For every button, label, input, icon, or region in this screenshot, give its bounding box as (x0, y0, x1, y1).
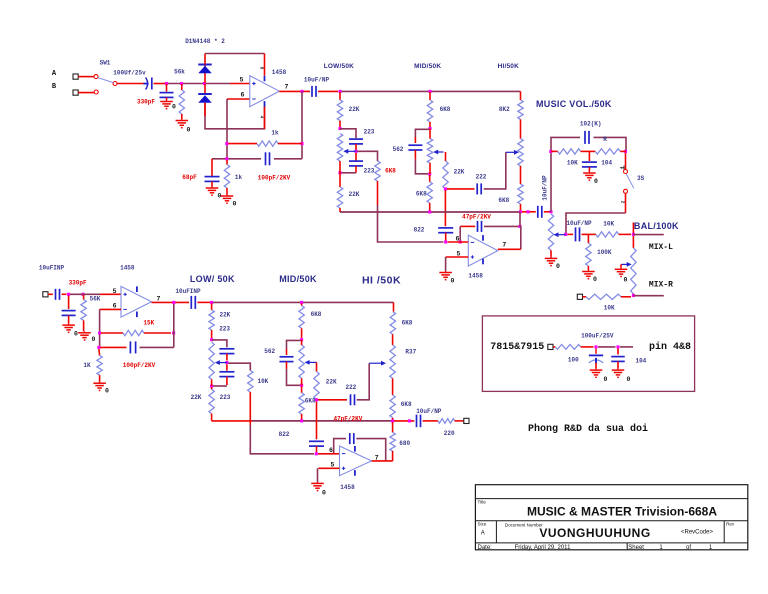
svg-text:10uF/NP: 10uF/NP (416, 408, 442, 415)
connector MIX-R input square (577, 294, 582, 299)
resistor 6K8 HI bottom lower (390, 395, 395, 418)
wire 104 tap (588, 151, 590, 161)
title block of (686, 545, 691, 551)
ground 0 label (556, 263, 560, 270)
wire wiper to 223 lower (355, 153, 357, 161)
resistor 6K8 feedback LOW (375, 161, 380, 181)
wire MV top loop right (594, 137, 627, 150)
capacitor 10uFINP label mid (175, 288, 201, 295)
svg-text:0: 0 (451, 278, 455, 285)
resistor 10K coupling lower (248, 371, 253, 393)
capacitor 10uFINP lower out (191, 296, 195, 309)
wire 22K stub lower (211, 304, 213, 310)
wire top loop right (264, 54, 266, 76)
potentiometer MID lower wiper (305, 360, 317, 365)
junction 56k node (180, 82, 183, 85)
wire 822 bottom lower (316, 446, 318, 452)
wire diode top stub (204, 66, 206, 84)
wire output feedback vert lower (173, 303, 175, 347)
svg-text:22K: 22K (349, 106, 360, 113)
net MIX-R (649, 281, 673, 290)
svg-text:MID/50K: MID/50K (414, 63, 441, 70)
svg-text:22K: 22K (219, 312, 230, 319)
resistor 100 label (568, 357, 579, 364)
ground 330pF (160, 100, 173, 109)
wire switch to corner (625, 193, 627, 213)
svg-text:56K: 56K (90, 296, 101, 303)
input connector A (73, 74, 78, 79)
potentiometer HI 50K body (518, 139, 523, 166)
junction bus cap lower (408, 419, 411, 422)
wire pin6 vertical lower (99, 309, 101, 347)
capacitor 104 label (601, 159, 612, 166)
wire 6K8 to bus lower (301, 414, 303, 421)
capacitor 100pF/2KV (266, 152, 270, 165)
potentiometer MV wiper arrow (554, 232, 566, 237)
svg-text:MIX-R: MIX-R (649, 281, 673, 290)
ground op4 pin5 (311, 482, 324, 491)
wire 223 lower to pot bottom (340, 172, 356, 174)
wire 562 stub lower (286, 349, 288, 355)
wire MIX-R line (633, 295, 663, 297)
wire square to 10K (583, 296, 587, 298)
svg-text:100uF/25V: 100uF/25V (581, 333, 614, 340)
junction diode node (203, 82, 206, 85)
capacitor 100pF/2KV lower value (123, 362, 156, 369)
resistor 1k feedback (257, 141, 278, 146)
connector output square lower (464, 418, 469, 423)
junction LOW node2 lower (210, 338, 213, 341)
capacitor 10uF/NP bus (538, 206, 542, 218)
junction 15K right (172, 331, 175, 334)
svg-text:10uFINP: 10uFINP (175, 288, 201, 295)
wire node to node2 (598, 346, 616, 348)
wire 6K8 to pot lower (392, 334, 394, 345)
header MID/50K (414, 63, 441, 70)
wire 22K stub (339, 92, 341, 100)
svg-text:68pF: 68pF (182, 174, 197, 181)
resistor 6K8 HI top lower label (402, 319, 413, 326)
svg-text:Friday, April 29, 2011: Friday, April 29, 2011 (515, 545, 571, 551)
svg-text:220: 220 (444, 430, 455, 437)
junction bus HI lower (391, 419, 394, 422)
potentiometer LOW lower body (209, 342, 214, 379)
svg-text:5: 5 (240, 77, 244, 84)
title block size A (481, 531, 485, 537)
wire 100K stub (587, 234, 589, 243)
power supply box (482, 316, 694, 392)
wire L to 223 upper lower (212, 340, 227, 347)
wire SW1 common to C input (117, 83, 145, 85)
svg-text:0: 0 (233, 201, 237, 208)
svg-text:15K: 15K (143, 320, 154, 327)
svg-text:562: 562 (264, 348, 275, 355)
resistor 1K label (83, 362, 91, 369)
ground MV pot (545, 257, 558, 266)
svg-text:6K8: 6K8 (385, 167, 396, 174)
svg-text:47pF/2KV: 47pF/2KV (462, 213, 491, 220)
capacitor 10uFINP lower input (56, 289, 60, 300)
svg-text:680: 680 (399, 440, 410, 447)
switch SW1 throw A contact (94, 75, 98, 79)
wire top rail (340, 90, 521, 92)
text 7815&7915 (490, 342, 544, 353)
wire row1 left stub (227, 143, 257, 145)
wire upper bus red (521, 211, 536, 213)
junction LOW node3 (338, 171, 341, 174)
node A input label (52, 70, 57, 78)
wire 223 to wiper lower (226, 354, 228, 361)
wire 1K stub lower (98, 349, 101, 355)
resistor 10K MV (558, 149, 581, 154)
wire HI corner (520, 91, 522, 100)
resistor 680 (390, 432, 395, 451)
svg-text:6K8: 6K8 (498, 197, 509, 204)
capacitor 222 (477, 183, 481, 194)
junction BAL top node (632, 233, 635, 236)
svg-text:223: 223 (364, 128, 375, 135)
svg-text:822: 822 (279, 431, 290, 438)
wire L to 562 lower (287, 340, 301, 349)
wire 10K to BAL node (619, 233, 631, 235)
svg-text:6: 6 (329, 447, 333, 454)
svg-text:22K: 22K (191, 394, 202, 401)
svg-text:6K8: 6K8 (416, 190, 427, 197)
svg-text:330pF: 330pF (137, 98, 155, 105)
svg-text:100Uf/25v: 100Uf/25v (113, 70, 146, 77)
op-amp U1A 1458 (250, 76, 279, 107)
resistor 10K coupling label (257, 378, 268, 385)
title block Rev label (726, 522, 735, 527)
wire upper bus (340, 211, 521, 213)
wire 47pF left red (460, 225, 475, 227)
resistor 6K8 MID bottom label (416, 190, 427, 197)
header HI/50K (498, 63, 520, 70)
wire lower bus mid (252, 420, 393, 422)
ground 0 label (92, 336, 96, 343)
svg-text:8K2: 8K2 (499, 106, 510, 113)
wire top loop left (204, 54, 206, 65)
svg-text:1458: 1458 (120, 264, 135, 271)
svg-text:pin 4&8: pin 4&8 (649, 341, 691, 353)
svg-text:10K: 10K (604, 305, 615, 312)
wire row2 horizontal right (274, 158, 302, 160)
junction feedback row1 left (225, 142, 228, 145)
wire 56k stub (181, 84, 183, 90)
wire cap to node (62, 293, 67, 295)
svg-text:1K: 1K (83, 362, 91, 369)
wire 223 lower to bottom (355, 166, 357, 173)
wire 562 down red (414, 150, 416, 159)
capacitor 47pF/2KV lower value (333, 416, 362, 423)
pin 5 number lower (113, 288, 117, 295)
wire pot bottom stub (339, 161, 341, 173)
svg-text:0: 0 (322, 489, 326, 496)
wire node to pin5 dark (206, 83, 230, 85)
junction MV left (549, 150, 552, 153)
input connector B (73, 90, 78, 95)
wire 223 to pot bottom lower (212, 385, 227, 387)
capacitor 102(K) (585, 131, 589, 144)
junction output lower (172, 301, 175, 304)
junction bus aux (526, 210, 529, 213)
svg-text:100K: 100K (597, 249, 612, 256)
net MIX-L (649, 243, 673, 252)
wire 104 stub (617, 349, 619, 355)
pin 5 number op2 (457, 251, 461, 258)
diode D2 (lower) (198, 94, 212, 103)
svg-text:10uF/NP: 10uF/NP (542, 175, 549, 201)
wire 100 to node (581, 346, 594, 348)
svg-text:Sheet: Sheet (628, 545, 644, 551)
op-amp U1B 1458 (468, 235, 498, 266)
capacitor 330pF lower (62, 311, 76, 316)
svg-text:Date:: Date: (478, 545, 493, 551)
resistor 220 (438, 419, 455, 424)
wire 56K to gnd (83, 320, 85, 331)
wire cap to 220 (423, 420, 438, 422)
svg-text:Rev: Rev (726, 522, 735, 527)
wire MID 6K8 stub lower (301, 304, 303, 306)
title block Date label (478, 545, 493, 551)
wire 10K down to pin6 row (250, 425, 314, 454)
junction MID node2 lower (300, 338, 303, 341)
wire lower rail (213, 301, 394, 303)
wire input B (78, 92, 94, 94)
svg-text:562: 562 (393, 146, 404, 153)
wire BAL node stub up (632, 223, 634, 235)
wire 22K to bus lower (211, 414, 213, 421)
svg-text:6K8: 6K8 (311, 311, 322, 318)
potentiometer R37 label (405, 349, 416, 356)
svg-text:223: 223 (219, 326, 230, 333)
svg-text:1458: 1458 (340, 484, 355, 491)
ground 1k (221, 195, 234, 204)
svg-text:HI/50K: HI/50K (498, 63, 520, 70)
pin 6 number lower (113, 303, 117, 310)
wire 68pF drop (211, 159, 213, 176)
wire 1k to gnd (226, 188, 228, 195)
resistor 220 label (444, 430, 455, 437)
ground op2 pin5 (439, 271, 452, 280)
ground 0 label (187, 127, 191, 134)
junction MV wiper node (564, 233, 567, 236)
ground 0 label (74, 331, 78, 338)
wire 22K to node (339, 121, 341, 129)
wire BAL pot stub (632, 236, 634, 248)
wire pin6 row lower2 (318, 453, 340, 455)
resistor 6K8 MID bottom (427, 182, 432, 203)
potentiometer LOW lower wiper (215, 360, 227, 365)
wire MIX-L line (633, 234, 663, 236)
ground 0 label (604, 376, 608, 383)
wire 330pF drop (68, 296, 70, 310)
capacitor 222 value (476, 173, 487, 180)
wire MID pot stub2 lower (301, 378, 303, 385)
capacitor 562 (408, 145, 422, 150)
pin 7 number (285, 84, 289, 91)
wire HI corner lower (393, 302, 395, 311)
svg-text:MUSIC & MASTER Trivision-668A: MUSIC & MASTER Trivision-668A (527, 505, 717, 519)
potentiometer MUSIC VOL body (548, 214, 553, 250)
wire row2 horizontal left (212, 158, 261, 160)
wire row2 right (140, 346, 174, 348)
svg-text:223: 223 (220, 394, 231, 401)
capacitor 10uFINP label lower-in (39, 264, 65, 271)
wire switch return (566, 213, 626, 234)
op-amp U2B 1458 lower (340, 446, 372, 476)
text pin 4&8 (649, 341, 691, 353)
ground 0 label (593, 276, 597, 283)
pin 7 number lower (157, 296, 161, 303)
wire cap to 10K (582, 233, 596, 235)
wire 10K to BAL bottom (621, 296, 631, 298)
resistor 8K2 label (499, 106, 510, 113)
capacitor 47pF/2KV value (462, 213, 491, 220)
wire cap to node 330pF (154, 83, 166, 85)
resistor 22K MID lower (314, 372, 319, 400)
junction 22K/222 lower (315, 398, 318, 401)
switch SW1 label (100, 60, 111, 67)
wire square to 100 (553, 346, 555, 348)
svg-text:222: 222 (345, 384, 356, 391)
svg-text:22K: 22K (349, 191, 360, 198)
wire output up (520, 226, 522, 249)
op-amp pin4 rotated (259, 116, 265, 119)
svg-text:7815&7915: 7815&7915 (490, 342, 544, 353)
wire 47pF row (484, 225, 520, 227)
svg-text:104: 104 (635, 358, 646, 365)
junction feedback row1 right (300, 142, 303, 145)
junction LOW top lower (210, 301, 213, 304)
switch 3S contact 2 (624, 189, 628, 193)
ground 0 label (172, 104, 176, 111)
svg-text:R: R (603, 136, 607, 143)
ground 0 label (105, 388, 109, 395)
svg-text:5: 5 (113, 288, 117, 295)
resistor 15K (123, 330, 144, 335)
wire BAL pot bottom (632, 294, 634, 296)
junction MID node3 lower (300, 384, 303, 387)
wire R row mid (581, 150, 596, 152)
resistor 1k to ground (224, 165, 229, 189)
ground 0 label (451, 278, 455, 285)
junction 47pF right (518, 225, 521, 228)
pin 5 number (240, 77, 244, 84)
ground BAL wiper (615, 268, 628, 277)
switch 3S label (637, 175, 645, 182)
capacitor 223 bottom lower label (220, 394, 231, 401)
wire MID 6K8 bottom stub (301, 386, 303, 393)
capacitor 822 value (414, 227, 425, 234)
wire node to node 56k (168, 83, 203, 85)
svg-text:102(K): 102(K) (580, 120, 602, 127)
potentiometer LOW wiper arrow (343, 149, 356, 154)
potentiometer MID lower body (299, 345, 304, 378)
wire pin6 row lower (100, 308, 121, 310)
capacitor 100Uf/25v label (113, 70, 146, 77)
svg-text:D1N4148 * 2: D1N4148 * 2 (185, 38, 225, 45)
svg-text:B: B (52, 83, 57, 91)
wire wiper bend (445, 152, 447, 161)
wire 6K8 to bus (429, 203, 431, 212)
potentiometer BAL wiper arrow (621, 262, 632, 267)
capacitor 223 upper lower (219, 349, 234, 354)
ground 0 label (218, 193, 222, 200)
wire HI pot to 6K8 (520, 166, 522, 184)
potentiometer BAL 100K body (631, 248, 636, 294)
pin 7 number lower2 (375, 454, 379, 461)
wire 56K stub lower (83, 295, 85, 300)
resistor 6K8 MID label (440, 106, 451, 113)
title block date value (515, 545, 571, 551)
wire pin6 feedback vertical (226, 99, 228, 159)
wire row1 right stub (278, 143, 302, 145)
svg-text:100pF/2KV: 100pF/2KV (123, 362, 156, 369)
pin 5 number lower2 (330, 462, 334, 469)
input connector lower (43, 292, 48, 297)
capacitor 223 lower LOW (349, 161, 363, 166)
wire 68pF to gnd (211, 181, 213, 186)
capacitor 68pF value (182, 174, 197, 181)
wire output feedback vertical (301, 91, 303, 158)
resistor 6K8 MID bottom lower (299, 393, 304, 414)
svg-text:1k: 1k (235, 174, 243, 181)
wire 100K to gnd (587, 266, 589, 270)
wire in to cap (48, 293, 53, 295)
wire row2 left red (100, 346, 127, 348)
resistor 22K MID lower label (326, 378, 337, 385)
capacitor 47pF/2KV (478, 221, 482, 232)
wire 6K8 down red (377, 181, 379, 205)
svg-text:of: of (686, 545, 691, 551)
resistor 22K LOW top (337, 100, 342, 121)
title block Size label (478, 522, 487, 527)
potentiometer R37 body (390, 345, 395, 378)
resistor R label (603, 136, 607, 143)
capacitor 100Uf/25v (input coupling) (143, 78, 151, 90)
svg-text:8: 8 (259, 67, 265, 70)
svg-text:7: 7 (502, 242, 506, 249)
svg-text:<RevCode>: <RevCode> (681, 530, 714, 536)
wire 562 red stub (414, 137, 416, 143)
switch pin 2 rotated (620, 201, 626, 204)
wire MID pot stubs (429, 129, 431, 139)
resistor 22K bottom label (349, 191, 360, 198)
wire R row left stub (551, 150, 558, 152)
resistor 22K LOW bottom (337, 187, 342, 208)
svg-text:330pF: 330pF (69, 280, 87, 287)
capacitor 100pF/2KV value (258, 174, 291, 181)
pin 6 number op2 (456, 236, 460, 243)
resistor 6K8 HI bottom (518, 184, 523, 204)
capacitor 562 lower value (264, 348, 275, 355)
capacitor 223 lower lower (219, 372, 234, 377)
ground 0 label (322, 489, 326, 496)
resistor 22K bottom lower label (191, 394, 202, 401)
capacitor 100uF/25V label (581, 333, 614, 340)
wire 220 to jack (455, 420, 464, 422)
junction MID node3 (428, 172, 431, 175)
ground 100K (582, 270, 595, 279)
wire 562 to pot bottom (415, 159, 428, 173)
svg-text:0: 0 (105, 388, 109, 395)
diode D1 (upper) (198, 65, 212, 74)
wire cap to LOW node (318, 90, 338, 92)
wire pot to 6K8 lower (392, 378, 394, 395)
junction 22K/222 node (444, 187, 447, 190)
junction pin6 lower (315, 452, 318, 455)
